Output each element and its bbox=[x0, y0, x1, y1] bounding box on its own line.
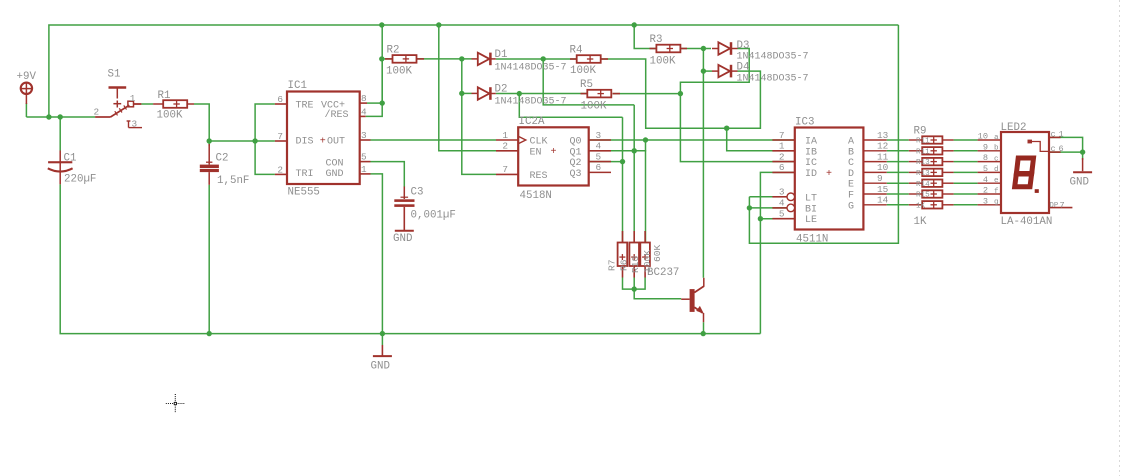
wire R2 left to +9V column bbox=[382, 58, 392, 60]
svg-text:11: 11 bbox=[877, 151, 889, 162]
switch S1 bbox=[109, 86, 127, 89]
wire Q0 column down to base resistor R10 bbox=[645, 140, 647, 243]
capacitor C3 bbox=[403, 187, 405, 200]
svg-text:IC1: IC1 bbox=[288, 80, 307, 92]
wire D2 cathode to R5 bbox=[496, 93, 588, 95]
svg-text:Q3: Q3 bbox=[569, 169, 581, 180]
svg-text:NE555: NE555 bbox=[288, 187, 320, 199]
wire +9V top supply rail bbox=[49, 25, 899, 117]
svg-text:R1: R1 bbox=[158, 90, 171, 102]
op IC1 NE555 timer bbox=[287, 92, 360, 185]
svg-text:2: 2 bbox=[502, 141, 508, 152]
svg-text:E: E bbox=[848, 180, 854, 191]
wire IC3 segment output row 3 to R9 and LED2 bbox=[887, 161, 909, 163]
svg-text:100K: 100K bbox=[157, 110, 183, 122]
wire Q1 output bbox=[589, 150, 647, 152]
svg-text:IB: IB bbox=[805, 147, 817, 158]
wire IC1 CON to C3 bbox=[371, 162, 405, 187]
svg-text:LE: LE bbox=[805, 215, 817, 226]
junction R5 right / D3 net bbox=[678, 91, 683, 96]
svg-text:7: 7 bbox=[1060, 200, 1065, 210]
svg-text:+: + bbox=[320, 136, 326, 147]
junction R3 right / D3 anode bbox=[701, 46, 706, 51]
svg-text:DP: DP bbox=[1050, 202, 1059, 210]
svg-text:10: 10 bbox=[877, 162, 889, 173]
svg-text:100K: 100K bbox=[570, 65, 596, 77]
svg-text:3: 3 bbox=[596, 130, 602, 141]
svg-text:CLK: CLK bbox=[530, 137, 548, 148]
wire D3/D4 anode column down to Q1 collector bbox=[702, 49, 704, 278]
svg-text:0,001µF: 0,001µF bbox=[411, 210, 456, 222]
svg-text:R3: R3 bbox=[650, 34, 663, 46]
junction IC1 VCC pin 8 bbox=[380, 100, 385, 105]
ground at bottom rail bbox=[381, 345, 383, 356]
svg-text:Q2: Q2 bbox=[569, 158, 581, 169]
svg-text:D2: D2 bbox=[495, 84, 508, 96]
svg-text:3: 3 bbox=[983, 196, 988, 206]
svg-text:S1: S1 bbox=[108, 69, 121, 81]
svg-text:R4: R4 bbox=[570, 45, 583, 57]
wire IC1 TRE/DIS/TRI tie bbox=[255, 104, 275, 174]
svg-text:3: 3 bbox=[779, 187, 785, 198]
supply +9V bbox=[21, 83, 32, 94]
svg-text:1,5nF: 1,5nF bbox=[217, 175, 249, 187]
svg-text:8: 8 bbox=[983, 153, 988, 163]
svg-text:D1: D1 bbox=[495, 49, 508, 61]
svg-text:D3: D3 bbox=[737, 40, 750, 52]
junction BC237 emitter / ground rail bbox=[701, 331, 706, 336]
junction +9V rail / EN column bbox=[436, 22, 441, 27]
wire Q3 stub bbox=[589, 171, 611, 173]
svg-text:1K: 1K bbox=[916, 202, 926, 210]
junction D1 anode / reset net bbox=[459, 56, 464, 61]
resistor R10 base resistor bbox=[644, 231, 646, 243]
svg-text:TRE: TRE bbox=[296, 101, 314, 112]
wire BC237 emitter to ground rail bbox=[703, 322, 705, 333]
diode D1 bbox=[472, 58, 478, 60]
svg-text:R11: R11 bbox=[916, 148, 930, 156]
svg-text:A: A bbox=[848, 137, 854, 148]
svg-text:8: 8 bbox=[361, 93, 367, 104]
display LED2 LA-401AN bbox=[1001, 132, 1049, 213]
wire C2 bottom to ground rail bbox=[208, 185, 210, 334]
resistor R4 bbox=[577, 55, 601, 63]
wire R5 right to D3/IC node bbox=[613, 93, 681, 95]
junction R4 right / IB branch bbox=[724, 126, 729, 131]
svg-text:4: 4 bbox=[983, 175, 988, 185]
wire D1 node jog down to Q1 column bbox=[543, 59, 634, 105]
wire IC3 segment output row 1 to R9 and LED2 bbox=[887, 139, 909, 141]
svg-text:C3: C3 bbox=[411, 187, 424, 199]
svg-text:12: 12 bbox=[877, 141, 888, 152]
svg-text:IC: IC bbox=[805, 158, 817, 169]
svg-text:4: 4 bbox=[361, 106, 367, 117]
svg-text:Q1: Q1 bbox=[569, 147, 581, 158]
capacitor C1 bbox=[59, 151, 61, 185]
svg-text:4: 4 bbox=[596, 141, 602, 152]
junction Q2 node bbox=[620, 159, 625, 164]
junction LED2 cathode / GND bbox=[1080, 149, 1085, 154]
svg-text:+: + bbox=[826, 169, 832, 180]
junction C2 bottom / ground rail bbox=[207, 331, 212, 336]
wire C2 node to IC1 inputs bbox=[209, 140, 255, 142]
svg-text:IC3: IC3 bbox=[795, 117, 814, 129]
wire IC3 segment output row 2 to R9 and LED2 bbox=[887, 150, 909, 152]
diode D4 bbox=[712, 70, 718, 72]
svg-text:R13: R13 bbox=[916, 159, 930, 167]
svg-text:100K: 100K bbox=[581, 101, 607, 113]
wire ground bottom rail bbox=[60, 184, 760, 333]
svg-text:C: C bbox=[848, 158, 854, 169]
svg-text:LA-401AN: LA-401AN bbox=[1001, 216, 1053, 228]
svg-text:OUT: OUT bbox=[327, 137, 345, 148]
svg-text:R13: R13 bbox=[916, 170, 930, 178]
svg-text:100K: 100K bbox=[650, 56, 676, 68]
junction IC1 GND / ground rail bbox=[380, 331, 385, 336]
wire +9V symbol to rail row bbox=[25, 103, 27, 117]
wire D3 cathode jog to IC input bbox=[680, 49, 794, 162]
wire IC3 BI branch bbox=[749, 207, 787, 209]
wire IB branch from D4/R4 node bbox=[727, 128, 795, 151]
svg-text:R2: R2 bbox=[387, 45, 400, 57]
svg-text:60K: 60K bbox=[652, 244, 663, 262]
svg-text:4: 4 bbox=[779, 198, 785, 209]
svg-text:BC237: BC237 bbox=[647, 267, 679, 279]
junction D1 cathode / Q1 jog bbox=[541, 56, 546, 61]
junction D2 anode / reset net bbox=[459, 91, 464, 96]
wire R2 right to D1 anode / reset column bbox=[417, 58, 472, 60]
junction C2 / R1 node bbox=[207, 138, 212, 143]
svg-text:c: c bbox=[1051, 144, 1056, 154]
svg-text:Q0: Q0 bbox=[569, 137, 581, 148]
junction IC1 input tie bbox=[252, 138, 257, 143]
wire D1 cathode to R4 bbox=[496, 58, 577, 60]
wire +9V rail down right side to LT/BI feed row bbox=[749, 25, 898, 243]
svg-text:R5: R5 bbox=[580, 79, 593, 91]
junction LE / ground column bbox=[758, 216, 763, 221]
svg-text:ID: ID bbox=[805, 169, 817, 180]
svg-text:C2: C2 bbox=[216, 153, 229, 165]
wire IC3 segment output row 7 to R9 and LED2 bbox=[887, 204, 909, 206]
svg-text:1: 1 bbox=[779, 141, 785, 152]
wire Q0 to IC3 IA bbox=[589, 139, 795, 141]
junction +9V rail / R2 column bbox=[379, 22, 384, 27]
wire IC3 segment output row 6 to R9 and LED2 bbox=[887, 193, 909, 195]
svg-text:6: 6 bbox=[277, 94, 283, 105]
wire GND symbol stub at rail bbox=[381, 334, 383, 345]
wire IC1 OUT to IC2A CLK bbox=[371, 139, 497, 141]
wire reset column to IC2A RES bbox=[462, 59, 496, 174]
mouse cursor crosshair bbox=[166, 403, 185, 405]
wire D4 anode stub bbox=[703, 70, 712, 72]
svg-text:F: F bbox=[848, 191, 854, 202]
svg-text:7: 7 bbox=[779, 130, 785, 141]
resistor R2 bbox=[393, 55, 417, 63]
svg-text:e: e bbox=[994, 177, 999, 185]
svg-text:LED2: LED2 bbox=[1001, 122, 1027, 134]
svg-text:5: 5 bbox=[779, 209, 785, 220]
svg-text:220µF: 220µF bbox=[64, 174, 96, 186]
svg-text:1: 1 bbox=[361, 164, 367, 175]
svg-text:R11: R11 bbox=[916, 138, 930, 146]
wire R3 right to D3 anode bbox=[680, 48, 711, 50]
junction R2 left / +9V column bbox=[379, 56, 384, 61]
svg-text:1K: 1K bbox=[914, 216, 927, 228]
svg-text:3: 3 bbox=[132, 119, 138, 130]
svg-text:IC2A: IC2A bbox=[519, 116, 545, 128]
svg-text:TRI: TRI bbox=[296, 169, 314, 180]
junction D4 anode / collector column bbox=[701, 68, 706, 73]
resistor R3 bbox=[656, 45, 680, 53]
svg-text:b: b bbox=[994, 145, 999, 153]
wire IC3 segment output row 4 to R9 and LED2 bbox=[887, 171, 909, 173]
diode D2 bbox=[472, 92, 478, 94]
svg-text:D: D bbox=[848, 169, 854, 180]
svg-text:1N4148DO35-7: 1N4148DO35-7 bbox=[495, 63, 567, 74]
wire base resistors to BC237 base bbox=[623, 278, 646, 290]
svg-text:6: 6 bbox=[596, 162, 602, 173]
diode D3 bbox=[712, 48, 718, 50]
wire IC1 VCC pin8/4 to +9V column bbox=[367, 102, 382, 104]
svg-text:6: 6 bbox=[1059, 144, 1064, 154]
svg-text:7: 7 bbox=[502, 164, 508, 175]
svg-text:DIS: DIS bbox=[296, 137, 314, 148]
svg-text:6: 6 bbox=[779, 162, 785, 173]
ground at LED2 bbox=[1073, 171, 1092, 173]
wire +9V to IC2A EN bbox=[439, 25, 496, 151]
wire R3 left to +9V rail bbox=[634, 25, 656, 49]
op IC3 4511N display driver bbox=[795, 128, 864, 230]
svg-text:2: 2 bbox=[277, 164, 283, 175]
svg-text:2: 2 bbox=[983, 186, 988, 196]
svg-text:BI: BI bbox=[805, 204, 817, 215]
svg-text:GND: GND bbox=[393, 233, 412, 245]
junction Q0 / IA node bbox=[643, 137, 648, 142]
svg-text:9: 9 bbox=[983, 142, 988, 152]
svg-text:R14: R14 bbox=[916, 181, 930, 189]
svg-text:7: 7 bbox=[277, 131, 283, 142]
junction D2 cathode / Q2 jog bbox=[517, 91, 522, 96]
svg-text:c: c bbox=[1051, 130, 1056, 140]
svg-text:4518N: 4518N bbox=[520, 190, 552, 202]
svg-text:+9V: +9V bbox=[17, 71, 37, 83]
svg-text:c: c bbox=[994, 155, 999, 163]
drawing frame dotted edge bbox=[1119, 0, 1121, 476]
wire LED2 common cathode pins to GND bbox=[1049, 137, 1083, 160]
svg-text:f: f bbox=[994, 188, 999, 196]
resistor R1 bbox=[141, 103, 153, 105]
svg-text:1: 1 bbox=[1059, 130, 1064, 140]
wire to D2 anode bbox=[462, 92, 472, 94]
junction BI / LT tie bbox=[747, 205, 752, 210]
resistor R8 base resistor bbox=[633, 231, 635, 243]
svg-text:R6: R6 bbox=[619, 259, 630, 271]
junction C1 top bbox=[58, 114, 63, 119]
svg-text:5: 5 bbox=[983, 164, 988, 174]
svg-text:100K: 100K bbox=[386, 66, 412, 78]
junction +9V rail / R3 column bbox=[632, 22, 637, 27]
capacitor C2 bbox=[208, 144, 210, 165]
wire IC1 GND to bottom rail bbox=[371, 174, 383, 334]
svg-text:+: + bbox=[551, 147, 557, 158]
svg-text:C1: C1 bbox=[64, 153, 77, 165]
svg-text:IA: IA bbox=[805, 137, 817, 148]
wire IC3 segment output row 5 to R9 and LED2 bbox=[887, 182, 909, 184]
resistor R7 base resistor bbox=[622, 231, 624, 243]
transistor Q1 BC237 bbox=[681, 298, 689, 300]
svg-text:RES: RES bbox=[530, 171, 548, 182]
svg-text:GND: GND bbox=[326, 169, 344, 180]
svg-text:CON: CON bbox=[326, 158, 344, 169]
svg-text:G: G bbox=[848, 201, 854, 212]
svg-text:g: g bbox=[994, 199, 999, 207]
svg-text:/RES: /RES bbox=[325, 109, 349, 121]
svg-text:3: 3 bbox=[361, 130, 367, 141]
svg-text:R7: R7 bbox=[607, 259, 618, 271]
svg-text:R10: R10 bbox=[630, 255, 641, 273]
svg-text:R15: R15 bbox=[916, 192, 930, 200]
wire D2 node jog down to Q2 column bbox=[519, 94, 622, 118]
svg-text:GND: GND bbox=[371, 361, 390, 373]
wire C1 top connection bbox=[59, 117, 61, 151]
svg-text:9: 9 bbox=[877, 173, 883, 184]
junction +9V node A bbox=[46, 114, 51, 119]
svg-text:1: 1 bbox=[502, 130, 508, 141]
svg-text:B: B bbox=[848, 147, 854, 158]
svg-text:4511N: 4511N bbox=[796, 234, 828, 246]
svg-text:10: 10 bbox=[978, 132, 988, 142]
junction Q1 node bbox=[632, 148, 637, 153]
wire IC3 LT feed bbox=[749, 196, 787, 198]
ground at C3 bbox=[395, 230, 414, 232]
wire Q1 column down to base resistor R8 bbox=[633, 105, 635, 243]
wire Q2 column down to base resistor R7 bbox=[622, 117, 624, 242]
svg-text:13: 13 bbox=[877, 130, 889, 141]
svg-text:LT: LT bbox=[805, 193, 817, 204]
op IC2A 4518N counter bbox=[518, 127, 589, 185]
wire LED2 cathode down to GND symbol bbox=[1082, 158, 1084, 171]
svg-text:d: d bbox=[994, 166, 999, 174]
wire IC3 ID to ground rail bbox=[760, 172, 794, 333]
svg-text:1: 1 bbox=[130, 93, 136, 104]
svg-text:5: 5 bbox=[361, 152, 367, 163]
svg-text:D4: D4 bbox=[737, 62, 750, 74]
svg-text:2: 2 bbox=[779, 151, 785, 162]
svg-text:15: 15 bbox=[877, 184, 889, 195]
svg-text:1N4148DO35-7: 1N4148DO35-7 bbox=[495, 97, 567, 108]
svg-text:a: a bbox=[994, 134, 999, 142]
svg-text:EN: EN bbox=[530, 147, 542, 158]
wire Q2 output bbox=[589, 161, 623, 163]
svg-text:14: 14 bbox=[877, 195, 889, 206]
resistor R5 bbox=[587, 90, 611, 98]
junction base resistor bus bbox=[632, 286, 637, 291]
wire R4 right to D4/IB node bbox=[601, 59, 761, 128]
svg-text:GND: GND bbox=[1070, 177, 1089, 189]
wire IC3 LE to ground column bbox=[760, 218, 794, 220]
svg-text:1N4148DO35-7: 1N4148DO35-7 bbox=[737, 74, 809, 85]
svg-text:5: 5 bbox=[596, 151, 602, 162]
wire R1 to C2 node bbox=[194, 104, 209, 146]
svg-text:2: 2 bbox=[94, 107, 100, 118]
